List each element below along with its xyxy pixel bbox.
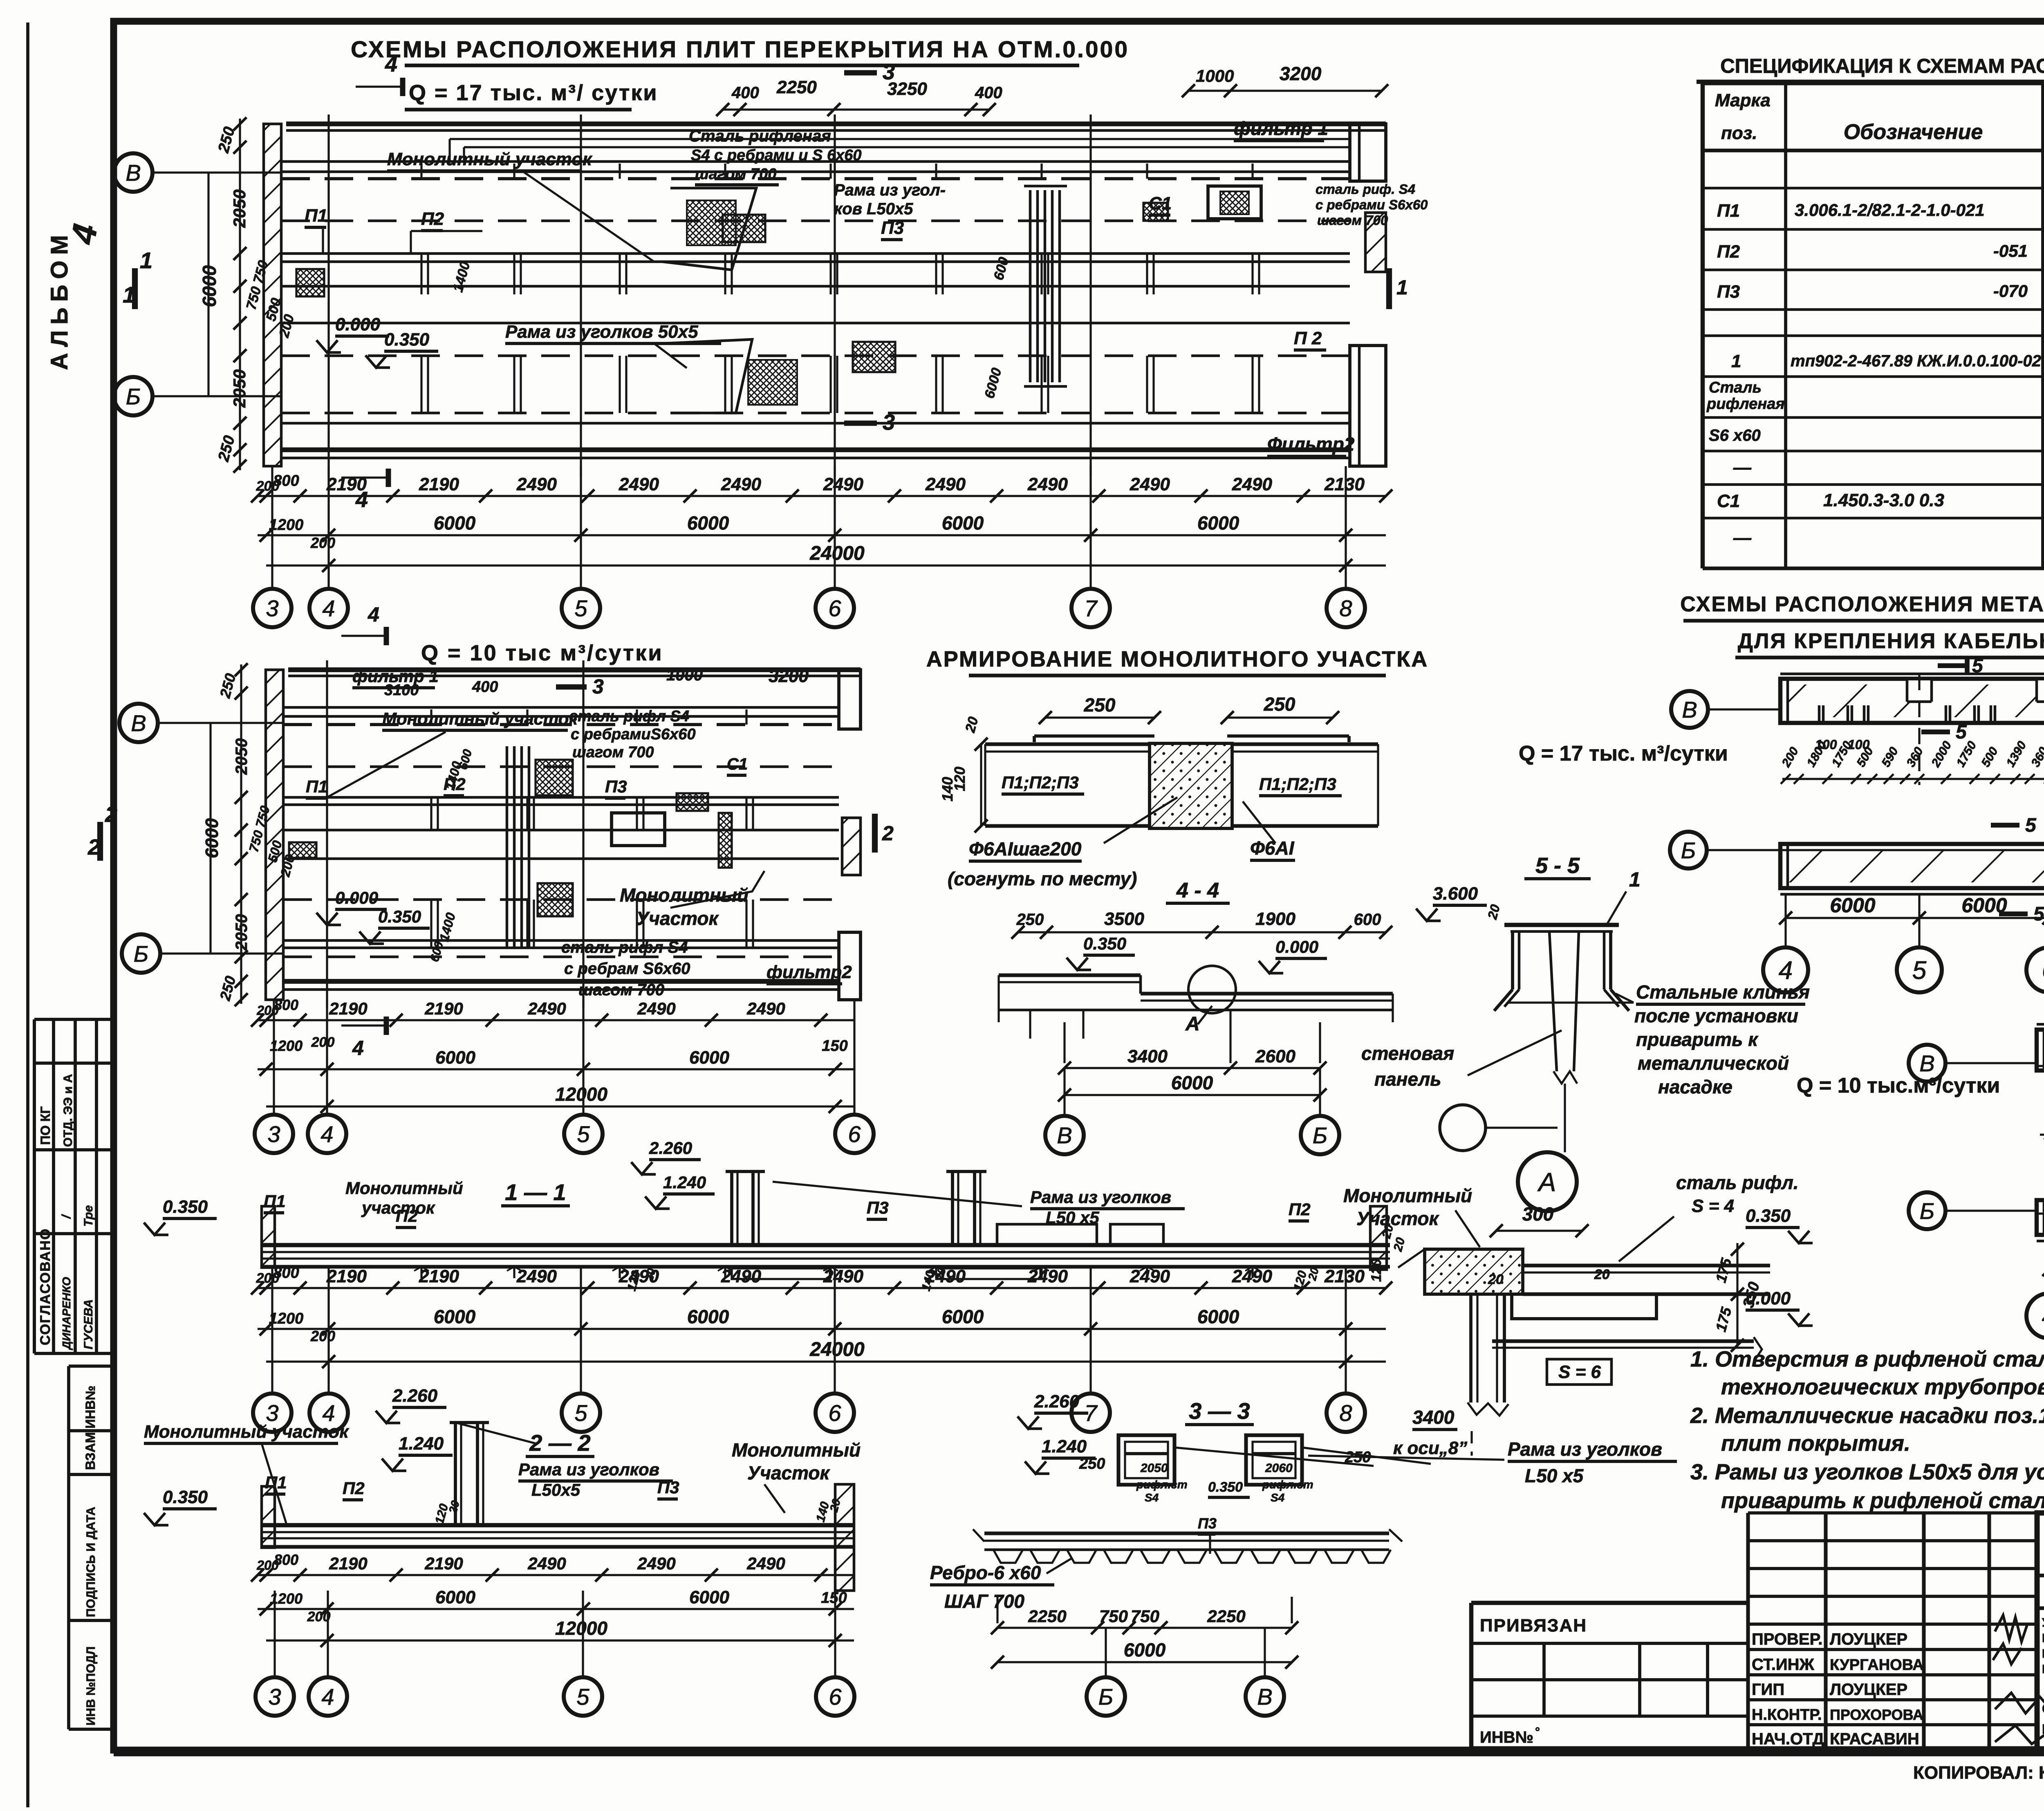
svg-text:6000: 6000 — [434, 1306, 476, 1327]
svg-text:рифл.ст: рифл.ст — [1262, 1478, 1313, 1491]
svg-text:100: 100 — [1848, 737, 1870, 752]
svg-text:0.350: 0.350 — [1746, 1206, 1791, 1226]
svg-text:2490: 2490 — [1232, 1266, 1272, 1286]
svg-text:5: 5 — [577, 1121, 590, 1147]
svg-text:ДИНАРЕНКО: ДИНАРЕНКО — [60, 1277, 73, 1350]
svg-text:НАЧ.ОТД: НАЧ.ОТД — [1752, 1730, 1824, 1748]
svg-text:2490: 2490 — [925, 1266, 966, 1286]
svg-text:150: 150 — [822, 1037, 847, 1055]
svg-text:200: 200 — [310, 1328, 335, 1344]
svg-text:панель: панель — [1374, 1068, 1441, 1090]
svg-text:2 — 2: 2 — 2 — [529, 1430, 590, 1456]
svg-text:—: — — [1733, 458, 1752, 478]
svg-text:4 - 4: 4 - 4 — [1176, 879, 1219, 902]
svg-text:В: В — [1257, 1684, 1272, 1710]
svg-text:2490: 2490 — [619, 474, 659, 494]
svg-text:СПЕЦИФИКАЦИЯ К СХЕМАМ РАСПОЛОЖ: СПЕЦИФИКАЦИЯ К СХЕМАМ РАСПОЛОЖЕНИЯ ПЛИТ … — [1720, 55, 2044, 77]
svg-text:2490: 2490 — [721, 1266, 761, 1286]
svg-text:L50х5: L50х5 — [531, 1480, 580, 1499]
svg-text:6: 6 — [829, 1684, 842, 1710]
svg-text:2130: 2130 — [1324, 474, 1365, 494]
svg-text:3: 3 — [883, 410, 895, 435]
svg-text:1: 1 — [1396, 276, 1408, 299]
svg-text:(согнуть по месту): (согнуть по месту) — [948, 868, 1137, 889]
svg-text:2190: 2190 — [326, 474, 367, 494]
svg-text:ПОДАЧА СТОЧНЫХ ВОД НА ФИЛЬТРАЦ: ПОДАЧА СТОЧНЫХ ВОД НА ФИЛЬТРАЦИЮ — [2042, 1663, 2044, 1676]
svg-text:2490: 2490 — [527, 1554, 566, 1573]
svg-text:6000: 6000 — [202, 818, 222, 858]
svg-text:рифл.ст: рифл.ст — [1136, 1478, 1188, 1491]
svg-text:технологических трубопровадов,: технологических трубопровадов, вырезать … — [1721, 1375, 2044, 1399]
svg-text:с ребрамиS6х60: с ребрамиS6х60 — [571, 726, 696, 743]
svg-text:ПОДПИСЬ И ДАТА: ПОДПИСЬ И ДАТА — [84, 1507, 98, 1617]
svg-text:0.350: 0.350 — [1083, 934, 1126, 953]
svg-text:4: 4 — [322, 595, 335, 621]
svg-text:Б: Б — [126, 384, 141, 409]
svg-text:Б: Б — [1920, 1198, 1934, 1224]
svg-text:2190: 2190 — [424, 999, 463, 1018]
svg-text:8: 8 — [1339, 595, 1352, 621]
svg-text:2050: 2050 — [233, 914, 251, 951]
svg-text:6: 6 — [828, 1400, 841, 1426]
svg-text:1200: 1200 — [269, 516, 304, 534]
svg-text:П1: П1 — [306, 777, 328, 796]
svg-text:12000: 12000 — [555, 1084, 607, 1105]
svg-text:1: 1 — [1731, 351, 1741, 371]
svg-text:24000: 24000 — [809, 543, 865, 564]
svg-text:2490: 2490 — [516, 1266, 557, 1286]
svg-text:2490: 2490 — [1130, 474, 1170, 494]
svg-text:250: 250 — [1079, 1455, 1105, 1472]
svg-text:6000: 6000 — [942, 1306, 984, 1327]
svg-text:С1: С1 — [1149, 193, 1172, 213]
svg-text:4: 4 — [2042, 1302, 2044, 1331]
svg-text:1000: 1000 — [666, 666, 703, 684]
svg-text:1.240: 1.240 — [399, 1434, 444, 1454]
svg-text:2490: 2490 — [1027, 1266, 1068, 1286]
svg-text:7: 7 — [1084, 595, 1098, 621]
svg-text:3: 3 — [266, 595, 278, 621]
svg-text:6: 6 — [2042, 956, 2044, 985]
svg-text:СХЕМЫ РАСПОЛОЖЕНИЯ ПЛИТ ПЕРЕ-: СХЕМЫ РАСПОЛОЖЕНИЯ ПЛИТ ПЕРЕ- — [2042, 1701, 2044, 1716]
svg-text:2490: 2490 — [527, 999, 566, 1018]
svg-text:2.260: 2.260 — [1034, 1391, 1080, 1412]
svg-text:250: 250 — [1264, 693, 1295, 715]
svg-text:ДЛЯ КРЕПЛЕНИЯ КАБЕЛЬНЫХ КОН: ДЛЯ КРЕПЛЕНИЯ КАБЕЛЬНЫХ КОНСТРУКЦИЙ — [1738, 629, 2044, 653]
svg-text:250: 250 — [1084, 694, 1116, 716]
svg-text:тп902-2-467.89 КЖ.И.0.0.100-02: тп902-2-467.89 КЖ.И.0.0.100-02 — [1791, 352, 2041, 370]
svg-text:П1: П1 — [265, 1473, 287, 1492]
svg-text:1900: 1900 — [1255, 909, 1295, 929]
svg-text:3: 3 — [592, 675, 604, 698]
svg-text:2: 2 — [105, 802, 117, 827]
svg-text:2130: 2130 — [1324, 1266, 1365, 1286]
svg-text:П1: П1 — [264, 1192, 286, 1211]
svg-text:4: 4 — [385, 52, 397, 76]
svg-text:Монолитный участок: Монолитный участок — [382, 709, 578, 728]
svg-text:3400: 3400 — [1412, 1407, 1455, 1428]
svg-text:ПРОХОРОВА: ПРОХОРОВА — [1830, 1706, 1923, 1723]
svg-text:Рама из угол-: Рама из угол- — [834, 181, 946, 199]
svg-text:сталь рифл S4: сталь рифл S4 — [569, 708, 689, 725]
svg-text:5: 5 — [1912, 956, 1927, 985]
svg-text:ИНВ№: ИНВ№ — [1480, 1728, 1533, 1746]
svg-text:140: 140 — [939, 777, 956, 801]
svg-text:ГИП: ГИП — [1752, 1681, 1784, 1699]
svg-text:2060: 2060 — [1265, 1461, 1293, 1475]
svg-text:6000: 6000 — [689, 1048, 729, 1068]
svg-text:к оси„8”: к оси„8” — [1393, 1438, 1467, 1458]
svg-text:2190: 2190 — [419, 1266, 459, 1286]
svg-text:6: 6 — [848, 1121, 861, 1147]
svg-text:24000: 24000 — [809, 1339, 865, 1360]
svg-text:2490: 2490 — [823, 1266, 863, 1286]
svg-text:Монолитный участок: Монолитный участок — [144, 1422, 350, 1442]
svg-text:С1: С1 — [1717, 491, 1740, 511]
svg-text:поз.: поз. — [1721, 123, 1757, 143]
svg-text:СОГЛАСОВАНО: СОГЛАСОВАНО — [38, 1228, 53, 1345]
svg-text:3.006.1-2/82.1-2-1.0-021: 3.006.1-2/82.1-2-1.0-021 — [1795, 200, 1985, 220]
svg-text:В: В — [1682, 697, 1697, 723]
svg-text:2490: 2490 — [746, 999, 785, 1018]
svg-text:КРЫТИЯ НА ОТМ. 0.000. РАЗРЕЗЫ.: КРЫТИЯ НА ОТМ. 0.000. РАЗРЕЗЫ. — [2042, 1721, 2044, 1737]
svg-text:П1: П1 — [1717, 201, 1740, 221]
svg-text:3400: 3400 — [1127, 1046, 1168, 1066]
svg-text:8: 8 — [1339, 1400, 1352, 1426]
svg-text:2190: 2190 — [329, 999, 367, 1018]
svg-text:АРМИРОВАНИЕ МОНОЛИТНОГО УЧАСТК: АРМИРОВАНИЕ МОНОЛИТНОГО УЧАСТКА — [926, 647, 1429, 671]
svg-text:ПРОВЕР.: ПРОВЕР. — [1752, 1630, 1822, 1648]
svg-text:Сталь: Сталь — [1709, 379, 1762, 396]
svg-text:200: 200 — [310, 534, 335, 551]
svg-text:6000: 6000 — [199, 265, 220, 307]
svg-text:5: 5 — [2033, 903, 2044, 925]
svg-text:шагом 700: шагом 700 — [578, 981, 664, 999]
svg-text:П1;П2;П3: П1;П2;П3 — [1002, 773, 1079, 792]
svg-text:3500: 3500 — [1104, 909, 1144, 929]
svg-text:ГУСЕВА: ГУСЕВА — [82, 1299, 95, 1349]
svg-text:2250: 2250 — [776, 77, 817, 97]
svg-text:S6 х60: S6 х60 — [1709, 426, 1761, 444]
svg-text:6000: 6000 — [1197, 1306, 1239, 1327]
svg-text:шагом 700: шагом 700 — [695, 166, 777, 183]
svg-text:4: 4 — [1779, 956, 1793, 985]
svg-text:Марка: Марка — [1715, 90, 1771, 110]
svg-text:6000: 6000 — [1197, 512, 1239, 534]
svg-text:2490: 2490 — [516, 474, 557, 494]
svg-text:5: 5 — [574, 1400, 587, 1426]
svg-text:плит покрытия.: плит покрытия. — [1721, 1431, 1910, 1456]
svg-text:1 — 1: 1 — 1 — [505, 1179, 566, 1205]
svg-text:S4: S4 — [1145, 1491, 1159, 1504]
svg-text:П3: П3 — [867, 1198, 889, 1217]
svg-text:П3: П3 — [605, 777, 627, 796]
svg-text:КУРГАНОВА: КУРГАНОВА — [1830, 1656, 1924, 1674]
svg-text:2490: 2490 — [619, 1266, 659, 1286]
svg-text:2490: 2490 — [1130, 1266, 1170, 1286]
svg-text:5: 5 — [1956, 721, 1967, 743]
svg-text:П2: П2 — [396, 1206, 418, 1225]
svg-text:ПРИВЯЗАН: ПРИВЯЗАН — [1480, 1616, 1587, 1636]
svg-text:6000: 6000 — [434, 512, 476, 534]
svg-text:П3: П3 — [1717, 282, 1740, 302]
svg-text:5: 5 — [1972, 655, 1983, 677]
svg-text:2490: 2490 — [823, 474, 863, 494]
svg-text:6000: 6000 — [687, 512, 729, 534]
svg-text:2: 2 — [882, 822, 894, 845]
svg-text:Рама из уголков: Рама из уголков — [1030, 1187, 1171, 1207]
svg-text:1: 1 — [1629, 868, 1641, 891]
svg-text:1.240: 1.240 — [1042, 1436, 1087, 1456]
svg-text:400: 400 — [731, 84, 759, 102]
svg-text:2250: 2250 — [1028, 1607, 1066, 1626]
svg-text:S4 с ребрами и S 6х60: S4 с ребрами и S 6х60 — [691, 147, 862, 164]
svg-text:шагом 700: шагом 700 — [1317, 213, 1388, 228]
svg-text:2050: 2050 — [230, 369, 249, 408]
svg-text:ВОД НА ФИЛЬТРАХ ПРОИЗВОДИ: ВОД НА ФИЛЬТРАХ ПРОИЗВОДИТЕЛЬ- — [2042, 1631, 2044, 1645]
svg-text:100: 100 — [1815, 737, 1837, 752]
svg-text:3 — 3: 3 — 3 — [1189, 1398, 1250, 1424]
svg-text:фильтр 1: фильтр 1 — [1234, 118, 1328, 139]
svg-text:3: 3 — [883, 60, 895, 84]
svg-text:2600: 2600 — [1255, 1046, 1295, 1066]
svg-text:приварить к рифленой стали на: приварить к рифленой стали на отм. 0.350 — [1721, 1488, 2044, 1513]
svg-text:2490: 2490 — [637, 999, 675, 1018]
svg-text:фильтр2: фильтр2 — [766, 962, 852, 982]
svg-text:5: 5 — [574, 595, 587, 621]
svg-text:Сталь рифленая: Сталь рифленая — [689, 127, 831, 145]
svg-text:Тре: Тре — [82, 1205, 95, 1227]
svg-text:сталь рифл S4: сталь рифл S4 — [561, 938, 688, 956]
svg-text:4: 4 — [368, 603, 379, 626]
svg-text:1: 1 — [123, 282, 135, 307]
svg-text:П 2: П 2 — [1294, 328, 1322, 348]
svg-text:Б: Б — [134, 941, 148, 967]
svg-text:300: 300 — [1522, 1203, 1554, 1225]
svg-text:0.350: 0.350 — [384, 330, 430, 350]
svg-text:В: В — [1919, 1050, 1934, 1076]
svg-text:L50 х5: L50 х5 — [1046, 1208, 1099, 1227]
svg-text:2190: 2190 — [329, 1554, 367, 1573]
svg-text:4: 4 — [320, 1121, 333, 1147]
svg-text:2490: 2490 — [1232, 474, 1272, 494]
svg-text:—: — — [1733, 528, 1752, 548]
svg-text:6000: 6000 — [1171, 1072, 1213, 1093]
svg-text:2490: 2490 — [721, 474, 761, 494]
svg-text:3200: 3200 — [1280, 63, 1322, 84]
svg-text:Монолитный: Монолитный — [732, 1439, 861, 1461]
svg-text:Рама из уголков: Рама из уголков — [518, 1460, 659, 1479]
svg-text:ков L50х5: ков L50х5 — [834, 200, 913, 218]
svg-text:6000: 6000 — [435, 1048, 475, 1068]
svg-text:стеновая: стеновая — [1361, 1043, 1454, 1064]
svg-text:6000: 6000 — [687, 1306, 729, 1327]
svg-text:5: 5 — [2025, 815, 2037, 836]
svg-text:2490: 2490 — [1027, 474, 1068, 494]
svg-text:сталь риф. S4: сталь риф. S4 — [1316, 182, 1415, 197]
svg-text:КРАСАВИН: КРАСАВИН — [1830, 1730, 1919, 1748]
svg-text:насадке: насадке — [1658, 1076, 1732, 1097]
svg-text:S = 6: S = 6 — [1558, 1362, 1601, 1382]
svg-text:А: А — [1185, 1013, 1200, 1035]
svg-text:800: 800 — [274, 996, 298, 1013]
svg-text:-070: -070 — [1993, 281, 2028, 301]
svg-text:В: В — [131, 710, 146, 736]
svg-text:П2: П2 — [1289, 1200, 1311, 1219]
svg-text:НОСТЬЮ 10 ТЫС М³/СУТКИ. НАПОРН: НОСТЬЮ 10 ТЫС М³/СУТКИ. НАПОРНАЯ — [2042, 1647, 2044, 1661]
svg-text:СХЕМЫ РАСПОЛОЖЕНИЯ ПЛИТ ПЕРЕКР: СХЕМЫ РАСПОЛОЖЕНИЯ ПЛИТ ПЕРЕКРЫТИЯ НА ОТ… — [351, 36, 1129, 63]
svg-text:ЛОУЦКЕР: ЛОУЦКЕР — [1830, 1630, 1907, 1648]
svg-text:S = 4: S = 4 — [1692, 1196, 1734, 1216]
svg-text:Q = 17 тыс. м³/сутки: Q = 17 тыс. м³/сутки — [1519, 742, 1728, 765]
svg-text:1000: 1000 — [1196, 66, 1234, 85]
svg-text:0.000: 0.000 — [1746, 1288, 1791, 1308]
svg-text:0.350: 0.350 — [163, 1197, 208, 1217]
svg-text:2490: 2490 — [925, 474, 966, 494]
svg-text:Монолитный: Монолитный — [1343, 1185, 1472, 1206]
svg-text:1.240: 1.240 — [663, 1173, 706, 1192]
svg-text:ВЗАМ ИНВ№: ВЗАМ ИНВ№ — [83, 1386, 98, 1470]
svg-text:АЛЬБОМ: АЛЬБОМ — [46, 229, 73, 370]
svg-text:750: 750 — [1131, 1607, 1159, 1626]
svg-text:Монолитный участок: Монолитный участок — [387, 149, 593, 169]
svg-text:Фильтр2: Фильтр2 — [1267, 433, 1355, 455]
svg-text:6000: 6000 — [435, 1587, 475, 1607]
svg-text:В: В — [126, 160, 141, 186]
svg-text:Q = 10 тыс.м³/сутки: Q = 10 тыс.м³/сутки — [1797, 1074, 2000, 1097]
svg-text:4: 4 — [352, 1037, 364, 1059]
svg-text:2050: 2050 — [233, 738, 251, 775]
svg-text:Б: Б — [1681, 837, 1696, 863]
svg-text:П2: П2 — [421, 209, 444, 229]
svg-text:6000: 6000 — [1124, 1639, 1166, 1661]
svg-text:2190: 2190 — [326, 1266, 367, 1286]
svg-text:6000: 6000 — [942, 512, 984, 534]
svg-text:Б: Б — [1098, 1684, 1113, 1710]
svg-text:приварить к: приварить к — [1636, 1029, 1759, 1050]
svg-text:Рама из уголков: Рама из уголков — [1508, 1438, 1662, 1460]
svg-text:0.350: 0.350 — [163, 1487, 208, 1507]
svg-text:с ребрам S6х60: с ребрам S6х60 — [564, 960, 690, 978]
svg-text:СТ.ИНЖ: СТ.ИНЖ — [1752, 1656, 1815, 1674]
svg-text:200: 200 — [311, 1035, 335, 1050]
svg-text:2: 2 — [87, 835, 100, 859]
svg-text:20: 20 — [1594, 1267, 1610, 1282]
svg-text:6000: 6000 — [689, 1587, 729, 1607]
svg-text:Ребро-6 х60: Ребро-6 х60 — [930, 1562, 1041, 1583]
svg-text:0.000: 0.000 — [1275, 937, 1318, 956]
svg-text:6000: 6000 — [1961, 894, 2007, 917]
svg-text:1: 1 — [140, 247, 152, 273]
svg-text:4: 4 — [321, 1684, 334, 1710]
svg-text:2.260: 2.260 — [392, 1386, 438, 1406]
svg-text:150: 150 — [821, 1589, 847, 1607]
svg-text:Q = 10 тыс м³/сутки: Q = 10 тыс м³/сутки — [421, 641, 663, 665]
svg-text:1.450.3-3.0 0.3: 1.450.3-3.0 0.3 — [1823, 490, 1944, 510]
svg-text:П3: П3 — [1198, 1515, 1217, 1532]
svg-text:-051: -051 — [1993, 241, 2028, 260]
svg-text:3: 3 — [268, 1684, 281, 1710]
svg-text:КОПИРОВАЛ: КОРШУНОВА: КОПИРОВАЛ: КОРШУНОВА — [1913, 1763, 2044, 1783]
svg-text:металлической: металлической — [1638, 1052, 1789, 1074]
svg-text:С1: С1 — [727, 755, 748, 773]
svg-text:Б: Б — [1313, 1122, 1327, 1148]
svg-text:6000: 6000 — [1830, 894, 1875, 917]
svg-text:5: 5 — [576, 1684, 589, 1710]
svg-text:П3: П3 — [657, 1478, 679, 1497]
svg-text:2190: 2190 — [424, 1554, 463, 1573]
svg-text:L50 х5: L50 х5 — [1525, 1465, 1584, 1486]
svg-text:2250: 2250 — [1207, 1607, 1245, 1626]
svg-text:0.000: 0.000 — [335, 888, 378, 907]
svg-text:1200: 1200 — [269, 1310, 304, 1327]
svg-text:800: 800 — [273, 1264, 299, 1281]
svg-text:Обозначение: Обозначение — [1844, 120, 1983, 144]
svg-text:400: 400 — [472, 678, 498, 696]
svg-text:Участок: Участок — [636, 908, 719, 929]
svg-text:ПО КГ: ПО КГ — [38, 1106, 53, 1145]
svg-text:2.260: 2.260 — [649, 1138, 692, 1158]
svg-text:Ф6АIшаг200: Ф6АIшаг200 — [969, 838, 1082, 859]
svg-text:Монолитный: Монолитный — [345, 1178, 463, 1198]
svg-text:СХЕМЫ РАСПОЛОЖЕНИЯ МЕТАЛЛИЧЕС: СХЕМЫ РАСПОЛОЖЕНИЯ МЕТАЛЛИЧЕСКИХ НАСАДОК — [1680, 592, 2044, 616]
svg-text:0.350: 0.350 — [1208, 1479, 1243, 1495]
svg-text:ИНВ №ПОДЛ: ИНВ №ПОДЛ — [84, 1646, 98, 1726]
svg-text:шагом 700: шагом 700 — [572, 744, 654, 761]
svg-text:П2: П2 — [343, 1479, 365, 1498]
svg-text:Q = 17 тыс. м³/ сутки: Q = 17 тыс. м³/ сутки — [409, 81, 658, 105]
svg-text:600: 600 — [1354, 911, 1381, 929]
svg-text:сталь рифл.: сталь рифл. — [1676, 1172, 1799, 1193]
svg-text:2190: 2190 — [419, 474, 459, 494]
svg-text:ОТД. ЭЭ и А: ОТД. ЭЭ и А — [61, 1074, 75, 1147]
svg-text:с ребрами S6х60: с ребрами S6х60 — [1316, 197, 1428, 212]
svg-text:В: В — [1057, 1122, 1072, 1148]
svg-text:2490: 2490 — [637, 1554, 675, 1573]
svg-text:Рама из уголков 50х5: Рама из уголков 50х5 — [505, 322, 698, 342]
svg-text:после установки: после установки — [1634, 1005, 1798, 1026]
svg-text:рифленая: рифленая — [1706, 395, 1785, 413]
svg-text:ШАГ 700: ШАГ 700 — [944, 1591, 1024, 1612]
svg-text:3. Рамы из уголков L50х5 для у: 3. Рамы из уголков L50х5 для установки э… — [1690, 1460, 2044, 1484]
svg-text:0.000: 0.000 — [335, 314, 381, 334]
svg-text:2. Металлические насадки поз.: 2. Металлические насадки поз.1 установит… — [1690, 1403, 2044, 1428]
svg-text:П2: П2 — [1717, 242, 1740, 262]
svg-text:3.600: 3.600 — [1433, 884, 1478, 904]
svg-text:2490: 2490 — [746, 1554, 785, 1573]
svg-text:А: А — [1537, 1167, 1556, 1197]
svg-text:3: 3 — [267, 1121, 280, 1147]
svg-text:5 - 5: 5 - 5 — [1535, 853, 1580, 878]
svg-text:Участок: Участок — [1356, 1208, 1440, 1229]
svg-text:1. Отверстия в рифленой стали: 1. Отверстия в рифленой стали, необходим… — [1690, 1347, 2044, 1371]
svg-text:П3: П3 — [881, 218, 904, 238]
svg-text:2050: 2050 — [230, 189, 249, 228]
svg-text:800: 800 — [274, 1551, 298, 1568]
svg-text:Участок: Участок — [747, 1462, 831, 1483]
svg-text:2050: 2050 — [1140, 1461, 1168, 1475]
svg-text:800: 800 — [273, 472, 299, 489]
svg-text:УСТАНОВКА ГЛУБОКОЙ ОЧИСТКИ СТО: УСТАНОВКА ГЛУБОКОЙ ОЧИСТКИ СТОЧНЫХ — [2042, 1616, 2044, 1629]
svg-text:Н.КОНТР.: Н.КОНТР. — [1752, 1706, 1822, 1723]
svg-text:6: 6 — [828, 595, 841, 621]
svg-text:S4: S4 — [1271, 1491, 1285, 1504]
svg-text:3200: 3200 — [769, 666, 809, 686]
svg-text:П1: П1 — [305, 206, 327, 226]
svg-text:20: 20 — [1488, 1272, 1504, 1287]
svg-text:750: 750 — [1099, 1607, 1128, 1626]
svg-text:250: 250 — [1016, 911, 1044, 929]
